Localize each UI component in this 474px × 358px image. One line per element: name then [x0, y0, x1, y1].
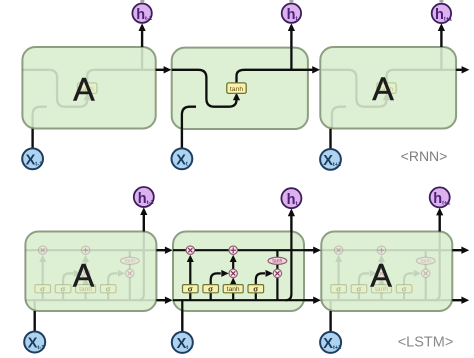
node x t (RNN)	[172, 148, 193, 169]
arrowhead h into LSTM cell3	[313, 297, 321, 304]
arrowhead C into LSTM cell2	[165, 247, 173, 254]
svg-text:<LSTM>: <LSTM>	[398, 334, 454, 350]
faded internals, right RNN cell	[322, 48, 458, 129]
arrowhead into LSTM h t-1	[140, 207, 147, 215]
wire: x t input stem	[181, 129, 183, 149]
node h t+1 (LSTM)	[430, 187, 451, 207]
wire: h t+1 output stem	[440, 31, 442, 47]
node x t-1 (RNN)	[22, 148, 43, 169]
node h t (LSTM)	[281, 188, 301, 208]
cropped gray stub above h t+1	[439, 0, 443, 2]
arrowhead h into LSTM cell2	[165, 297, 173, 304]
faded internals, right LSTM cell	[321, 232, 452, 312]
arrowhead into h t	[288, 23, 295, 31]
wire: h line cell1 to cell2	[156, 299, 165, 301]
wire: x t+1 input stem	[329, 129, 331, 149]
cropped gray stub above h t-1	[140, 0, 144, 2]
arrowhead into h t-1	[139, 23, 146, 31]
arrowhead into LSTM h t	[288, 208, 295, 216]
RNN row external wires	[33, 31, 462, 149]
wire: RNN cell1 to cell2	[156, 69, 164, 71]
wire: h t-1 output stem	[143, 215, 145, 232]
wire: RNN cell2 to cell3	[308, 69, 313, 71]
wire: x t-1 input stem	[31, 129, 33, 149]
wire: h t output stem	[290, 216, 292, 232]
arrowhead C into LSTM cell3	[313, 247, 321, 254]
svg-text:A: A	[73, 257, 95, 293]
svg-text:A: A	[370, 257, 392, 293]
arrowhead into RNN cell2	[164, 66, 172, 73]
wire: x t input stem	[181, 311, 183, 332]
arrowhead into LSTM h t+1	[436, 208, 443, 216]
wire: h t output stem	[290, 31, 292, 48]
internals, middle RNN cell tanh box	[227, 83, 246, 94]
node x t+1 (RNN)	[320, 149, 341, 170]
wire: x t-1 input stem	[34, 311, 36, 332]
node x t+1 (LSTM)	[320, 332, 341, 353]
node h t (RNN)	[282, 4, 301, 24]
svg-text:<RNN>: <RNN>	[401, 148, 448, 164]
faded internals, left LSTM cell	[25, 232, 156, 312]
wire: h line cell2 to cell3	[304, 299, 314, 301]
node x t (LSTM)	[172, 332, 193, 353]
wire: C line cell2 to cell3	[304, 249, 314, 251]
internals, middle LSTM cell gates	[183, 246, 287, 293]
wire: C line cell1 to cell2	[156, 249, 165, 251]
wire: h line cell3 exit	[452, 299, 461, 301]
LSTM cell A (middle)	[173, 232, 304, 312]
internals, middle RNN cell wires	[172, 48, 308, 129]
svg-text:A: A	[73, 72, 95, 108]
internals, middle LSTM cell wires	[173, 232, 304, 312]
arrowhead RNN exit	[462, 66, 470, 73]
arrowhead into h t+1	[438, 23, 445, 31]
arrowhead C exit	[461, 247, 469, 254]
cropped gray stub above h t	[289, 0, 293, 2]
arrowhead h exit	[461, 297, 469, 304]
faded internals, left RNN cell	[22, 48, 158, 129]
svg-text:A: A	[372, 71, 394, 107]
LSTM cell A (right)	[321, 232, 452, 312]
RNN cell A (left)	[22, 47, 155, 129]
RNN cell A (middle)	[172, 48, 308, 129]
LSTM row external wires	[35, 215, 462, 332]
wire: C line cell3 exit	[452, 249, 461, 251]
LSTM cell A (left)	[25, 232, 156, 312]
node x t-1 (LSTM)	[24, 332, 45, 353]
node h t+1 (RNN)	[432, 4, 452, 24]
node h t-1 (RNN)	[132, 4, 153, 24]
wire: h t-1 output stem	[141, 31, 143, 47]
wire: x t+1 input stem	[329, 311, 331, 332]
wire: h t+1 output stem	[439, 215, 441, 232]
RNN cell A (right)	[320, 47, 456, 129]
arrowhead into RNN cell3	[312, 66, 320, 73]
node h t-1 (LSTM)	[134, 187, 155, 207]
wire: RNN cell3 exit	[456, 69, 462, 71]
